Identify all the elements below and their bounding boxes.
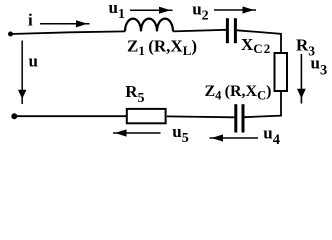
svg-text:i: i (28, 11, 33, 30)
svg-text:u4: u4 (263, 123, 280, 148)
wire: top rail middle segment (inductor to capacitor) (173, 30, 226, 32)
capacitor XC2 plate right (234, 18, 237, 43)
voltage arrow u1 (130, 7, 173, 14)
capacitor Z4 plate left (234, 104, 237, 132)
wire: bottom rail left segment (R5 to terminal) (14, 115, 126, 117)
current arrow i (40, 20, 90, 27)
svg-text:R5: R5 (125, 82, 144, 106)
voltage arrow u (source) (18, 41, 26, 105)
node: top-left input terminal (8, 32, 13, 37)
svg-text:u1: u1 (109, 0, 125, 22)
wire: R3 bottom to bottom rail corner (245, 92, 282, 117)
node: bottom-left input terminal (11, 113, 17, 119)
wire: bottom rail between capacitor Z4 and resistor R5 (167, 115, 235, 118)
svg-text:u: u (29, 52, 38, 71)
svg-text:u3: u3 (311, 54, 328, 79)
svg-text:Z1 (R,XL): Z1 (R,XL) (127, 37, 197, 59)
wire: top rail left segment (terminal to inductor) (11, 31, 126, 34)
svg-text:XC 2: XC 2 (241, 35, 270, 56)
voltage arrow u4 (points left) (210, 134, 259, 141)
voltage arrow u2 (214, 6, 256, 13)
voltage arrow u5 (points left) (113, 129, 161, 136)
svg-text:u5: u5 (172, 122, 188, 146)
voltage arrow u3 (297, 54, 306, 104)
inductor Z1 (125, 19, 173, 32)
svg-text:Z4 (R,XC): Z4 (R,XC) (205, 83, 272, 103)
resistor R5 box (127, 109, 166, 123)
capacitor XC2 plate left (226, 18, 229, 43)
svg-text:u2: u2 (192, 0, 208, 23)
resistor R3 box (275, 53, 288, 91)
capacitor Z4 plate right (242, 104, 245, 132)
wire: top rail right segment (capacitor to corner) + right drop to R3 (237, 30, 281, 53)
